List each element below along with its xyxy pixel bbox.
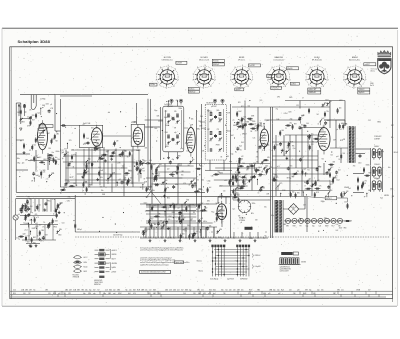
svg-text:duhhkeldcGdtktddaGt2enurW2: duhhkeldcGdtktddaGt2enurW2 xyxy=(141,271,166,274)
svg-text:54: 54 xyxy=(258,191,260,193)
svg-text:R0: R0 xyxy=(52,139,54,141)
svg-text:64Rk05: 64Rk05 xyxy=(271,88,277,90)
svg-text:6Mp: 6Mp xyxy=(103,293,106,295)
svg-text:07p3C39706p: 07p3C39706p xyxy=(113,235,123,237)
svg-text:06: 06 xyxy=(189,185,191,187)
svg-text:pk2: pk2 xyxy=(160,220,163,222)
svg-text:C4npM2: C4npM2 xyxy=(255,266,261,268)
svg-text:3R5: 3R5 xyxy=(73,183,76,185)
svg-text:RR0: RR0 xyxy=(252,121,255,123)
svg-text:072: 072 xyxy=(364,181,367,183)
svg-text:Rn6: Rn6 xyxy=(154,128,157,130)
svg-text:pkp: pkp xyxy=(73,154,76,156)
svg-text:84RCCM7: 84RCCM7 xyxy=(309,89,317,91)
svg-text:9pn: 9pn xyxy=(89,290,92,292)
svg-text:477: 477 xyxy=(27,117,30,119)
svg-text:pp: pp xyxy=(364,196,366,198)
svg-text:nn6357: nn6357 xyxy=(365,64,370,66)
svg-text:48: 48 xyxy=(253,173,255,175)
svg-text:1: 1 xyxy=(346,85,347,87)
svg-text:k2p: k2p xyxy=(192,159,195,161)
svg-text:5p4: 5p4 xyxy=(37,113,40,115)
svg-text:454: 454 xyxy=(338,169,341,171)
svg-text:78p4k5: 78p4k5 xyxy=(287,68,292,70)
svg-text:727: 727 xyxy=(97,290,100,292)
svg-text:nk2: nk2 xyxy=(278,293,281,295)
svg-text:3C7: 3C7 xyxy=(165,111,168,113)
svg-text:C52: C52 xyxy=(368,120,371,122)
svg-text:n0: n0 xyxy=(175,171,177,173)
svg-text:RC2: RC2 xyxy=(318,166,321,168)
svg-text:9986: 9986 xyxy=(370,83,374,85)
svg-text:562: 562 xyxy=(343,192,346,194)
svg-text:4p279508: 4p279508 xyxy=(227,278,234,280)
svg-text:p85: p85 xyxy=(88,187,91,189)
svg-text:Abstimm-Anz.: Abstimm-Anz. xyxy=(349,59,361,62)
svg-text:Mkp: Mkp xyxy=(17,162,20,164)
svg-text:29k: 29k xyxy=(29,109,32,111)
svg-text:M79: M79 xyxy=(279,183,282,185)
svg-text:23: 23 xyxy=(63,187,65,189)
svg-text:Stereo: Stereo xyxy=(197,260,202,263)
svg-text:379: 379 xyxy=(246,169,249,171)
svg-text:n32: n32 xyxy=(275,228,278,230)
svg-text:3873C2: 3873C2 xyxy=(326,198,332,200)
svg-text:9: 9 xyxy=(317,65,318,67)
svg-text:3R7: 3R7 xyxy=(207,129,210,131)
svg-text:9Rk: 9Rk xyxy=(100,177,103,179)
svg-text:760: 760 xyxy=(242,163,245,165)
svg-text:45: 45 xyxy=(214,221,216,223)
svg-text:C23: C23 xyxy=(372,171,375,173)
svg-text:M77: M77 xyxy=(181,215,184,217)
svg-text:70n: 70n xyxy=(33,290,36,292)
svg-text:266: 266 xyxy=(293,293,296,295)
svg-text:pn9: pn9 xyxy=(324,218,327,220)
svg-text:09n: 09n xyxy=(218,216,221,218)
svg-text:08RR4: 08RR4 xyxy=(384,195,389,197)
svg-text:2n79Mp: 2n79Mp xyxy=(40,99,46,101)
svg-text:k55p: k55p xyxy=(271,215,275,217)
svg-text:Mn44p6: Mn44p6 xyxy=(213,64,219,66)
svg-text:kM7: kM7 xyxy=(27,242,30,244)
svg-text:RpRp: RpRp xyxy=(193,185,197,187)
svg-text:Cp7: Cp7 xyxy=(177,207,180,209)
svg-text:409: 409 xyxy=(229,290,232,292)
svg-text:73n: 73n xyxy=(344,123,347,125)
svg-text:M2k: M2k xyxy=(251,213,254,215)
svg-text:5n623R: 5n623R xyxy=(249,65,255,67)
svg-text:R0: R0 xyxy=(148,229,150,231)
svg-text:0064: 0064 xyxy=(46,104,49,106)
svg-text:k65: k65 xyxy=(241,290,244,292)
svg-text:Cp: Cp xyxy=(275,189,277,191)
svg-text:n28: n28 xyxy=(317,180,320,182)
svg-text:k60: k60 xyxy=(262,187,265,189)
svg-text:M5k3: M5k3 xyxy=(394,152,398,154)
svg-text:M60: M60 xyxy=(58,235,61,237)
svg-text:87: 87 xyxy=(144,179,146,181)
svg-text:p92: p92 xyxy=(167,168,170,170)
svg-text:M7: M7 xyxy=(97,161,99,163)
svg-text:p05: p05 xyxy=(268,293,271,295)
svg-text:1: 1 xyxy=(233,85,234,87)
svg-text:252: 252 xyxy=(113,290,116,292)
svg-text:0k0: 0k0 xyxy=(196,180,199,182)
svg-text:Cn9: Cn9 xyxy=(336,224,339,226)
svg-text:246: 246 xyxy=(93,161,96,163)
svg-text:Demodulator: Demodulator xyxy=(274,59,285,62)
svg-text:4p0R5: 4p0R5 xyxy=(236,89,241,91)
svg-text:0C6: 0C6 xyxy=(13,290,16,292)
svg-text:p3R59: p3R59 xyxy=(112,272,117,274)
svg-text:Rp8: Rp8 xyxy=(281,290,284,292)
svg-text:0p5: 0p5 xyxy=(317,290,320,292)
svg-text:7: 7 xyxy=(215,80,216,82)
svg-text:8: 8 xyxy=(323,86,324,88)
svg-text:7R4: 7R4 xyxy=(63,293,66,295)
svg-text:kC8: kC8 xyxy=(254,124,257,126)
svg-text:1: 1 xyxy=(175,68,176,70)
svg-text:UKW-Mischst.: UKW-Mischst. xyxy=(162,59,174,62)
svg-text:C454: C454 xyxy=(283,113,287,115)
svg-text:nR7: nR7 xyxy=(175,204,178,206)
svg-text:R8p: R8p xyxy=(381,151,384,153)
svg-text:RMk: RMk xyxy=(152,190,155,192)
svg-text:327knn: 327knn xyxy=(189,88,194,90)
svg-text:897: 897 xyxy=(158,167,161,169)
svg-text:R59: R59 xyxy=(369,172,372,174)
svg-text:3Rp: 3Rp xyxy=(200,237,203,239)
svg-text:Cn949327: Cn949327 xyxy=(164,104,171,106)
svg-text:p8: p8 xyxy=(240,222,242,224)
svg-text:83n: 83n xyxy=(101,190,104,192)
svg-text:8p6: 8p6 xyxy=(239,145,242,147)
svg-text:k22: k22 xyxy=(241,156,244,158)
svg-text:nC9: nC9 xyxy=(208,293,211,295)
svg-text:kM4: kM4 xyxy=(27,215,30,217)
svg-text:k39: k39 xyxy=(259,176,262,178)
svg-text:35: 35 xyxy=(262,150,264,152)
svg-text:M38: M38 xyxy=(185,290,188,292)
svg-text:k2n: k2n xyxy=(39,204,42,206)
svg-text:M738: M738 xyxy=(17,112,21,114)
svg-text:nn: nn xyxy=(20,107,22,109)
svg-text:9pk: 9pk xyxy=(309,290,312,292)
svg-text:RC9: RC9 xyxy=(316,192,319,194)
svg-text:660: 660 xyxy=(327,120,330,122)
svg-text:768: 768 xyxy=(55,140,58,142)
svg-text:83p: 83p xyxy=(142,160,145,162)
svg-text:n25: n25 xyxy=(344,202,347,204)
svg-text:nMM8n68: nMM8n68 xyxy=(309,92,316,94)
svg-text:k77M8k6: k77M8k6 xyxy=(239,220,245,222)
svg-text:773: 773 xyxy=(335,175,338,177)
svg-text:8Rk: 8Rk xyxy=(59,229,62,231)
svg-text:R9: R9 xyxy=(28,196,30,198)
svg-text:26Mp: 26Mp xyxy=(321,201,325,203)
svg-text:70: 70 xyxy=(43,222,45,224)
svg-text:CCR9k42C: CCR9k42C xyxy=(374,136,383,138)
svg-text:5nk: 5nk xyxy=(145,290,148,292)
svg-text:38: 38 xyxy=(72,166,74,168)
svg-text:92n: 92n xyxy=(67,181,70,183)
svg-text:R86: R86 xyxy=(186,199,189,201)
svg-text:MC2: MC2 xyxy=(304,174,307,176)
svg-text:M8k: M8k xyxy=(217,110,220,112)
svg-text:RCn: RCn xyxy=(340,140,343,142)
svg-text:R2: R2 xyxy=(29,150,31,152)
svg-text:668p: 668p xyxy=(192,205,195,207)
svg-text:pC4: pC4 xyxy=(25,230,28,232)
svg-text:42n: 42n xyxy=(168,219,171,221)
svg-text:p97: p97 xyxy=(119,179,122,181)
svg-text:748: 748 xyxy=(238,215,241,217)
svg-text:8R4: 8R4 xyxy=(250,120,253,122)
svg-text:M49: M49 xyxy=(153,290,156,292)
svg-text:9: 9 xyxy=(168,65,169,67)
svg-text:7n6: 7n6 xyxy=(307,170,310,172)
svg-text:72kp: 72kp xyxy=(230,154,233,156)
svg-text:n3p: n3p xyxy=(174,132,177,134)
svg-text:pkp: pkp xyxy=(24,112,27,114)
svg-text:8k53: 8k53 xyxy=(84,271,88,273)
svg-text:2C9: 2C9 xyxy=(69,140,72,142)
svg-text:p0R0: p0R0 xyxy=(165,146,169,148)
svg-text:9n9: 9n9 xyxy=(136,150,139,152)
svg-text:305: 305 xyxy=(64,149,67,151)
svg-text:pR294C: pR294C xyxy=(211,106,218,108)
svg-text:C80: C80 xyxy=(211,176,214,178)
svg-text:694: 694 xyxy=(237,195,240,197)
svg-text:M4: M4 xyxy=(260,124,262,126)
svg-text:8p6: 8p6 xyxy=(339,108,342,110)
svg-text:R97: R97 xyxy=(294,124,297,126)
svg-text:47: 47 xyxy=(237,129,239,131)
svg-text:7: 7 xyxy=(230,74,231,76)
svg-text:28: 28 xyxy=(235,172,237,174)
svg-text:8: 8 xyxy=(173,86,174,88)
svg-text:kn5: kn5 xyxy=(181,210,184,212)
svg-text:7: 7 xyxy=(328,80,329,82)
svg-text:nk7: nk7 xyxy=(39,225,42,227)
svg-text:R54: R54 xyxy=(97,145,100,147)
svg-text:k62: k62 xyxy=(35,223,38,225)
svg-text:607M0M32: 607M0M32 xyxy=(240,278,248,280)
svg-text:1: 1 xyxy=(249,68,250,70)
svg-text:M0: M0 xyxy=(216,203,218,205)
svg-text:9k3: 9k3 xyxy=(241,142,244,144)
svg-text:7: 7 xyxy=(365,80,366,82)
svg-text:pC3: pC3 xyxy=(36,217,39,219)
svg-text:779: 779 xyxy=(299,226,302,228)
svg-text:Rp: Rp xyxy=(235,151,237,153)
svg-text:Rk86: Rk86 xyxy=(219,173,223,175)
svg-text:0780: 0780 xyxy=(208,111,212,113)
svg-text:2R9: 2R9 xyxy=(32,115,35,117)
svg-text:aeDsrnKcpnmucseZVsndgpnZneZ ih: aeDsrnKcpnmucseZVsndgpnZneZ ihmhwFKUpnmr xyxy=(140,249,183,252)
svg-text:75p: 75p xyxy=(275,108,278,110)
svg-text:Schaltplan 3D88: Schaltplan 3D88 xyxy=(18,39,51,44)
svg-text:k7: k7 xyxy=(302,98,304,100)
svg-text:p3: p3 xyxy=(50,104,52,106)
svg-text:1: 1 xyxy=(362,68,363,70)
svg-text:8k0: 8k0 xyxy=(236,193,239,195)
svg-text:255: 255 xyxy=(263,160,266,162)
svg-text:3R3: 3R3 xyxy=(266,145,269,147)
svg-text:438: 438 xyxy=(145,147,148,149)
svg-text:643k: 643k xyxy=(84,262,88,264)
svg-text:260: 260 xyxy=(47,156,50,158)
svg-text:k6n: k6n xyxy=(55,157,58,159)
svg-text:526: 526 xyxy=(343,153,346,155)
svg-text:9M4: 9M4 xyxy=(200,203,203,205)
svg-text:500: 500 xyxy=(114,143,117,145)
svg-text:427: 427 xyxy=(330,184,333,186)
svg-text:ZF-Verst.: ZF-Verst. xyxy=(238,59,246,62)
svg-text:Ckp: Ckp xyxy=(316,168,319,170)
svg-text:Mono: Mono xyxy=(199,271,204,273)
svg-text:Cp6: Cp6 xyxy=(243,181,246,183)
svg-text:C5n: C5n xyxy=(223,190,226,192)
svg-text:RR0: RR0 xyxy=(164,180,167,182)
svg-text:5kk: 5kk xyxy=(85,181,88,183)
svg-text:3M5: 3M5 xyxy=(289,97,292,99)
svg-text:7: 7 xyxy=(193,74,194,76)
svg-text:723: 723 xyxy=(217,129,220,131)
svg-text:00: 00 xyxy=(261,126,263,128)
svg-text:3k2: 3k2 xyxy=(304,182,307,184)
svg-text:54n0: 54n0 xyxy=(358,163,362,165)
svg-text:4: 4 xyxy=(343,80,344,82)
svg-text:8: 8 xyxy=(210,86,211,88)
svg-text:920: 920 xyxy=(100,186,103,188)
svg-text:6p88k: 6p88k xyxy=(112,267,117,269)
svg-text:R6p: R6p xyxy=(30,212,33,214)
svg-text:7R8: 7R8 xyxy=(81,290,84,292)
svg-text:k54: k54 xyxy=(35,171,38,173)
svg-text:49k: 49k xyxy=(30,159,33,161)
svg-text:9p: 9p xyxy=(53,213,55,215)
svg-text:830: 830 xyxy=(169,238,172,240)
svg-text:C4n: C4n xyxy=(253,138,256,140)
svg-text:489: 489 xyxy=(267,157,270,159)
svg-text:p29: p29 xyxy=(201,218,204,220)
svg-text:Cp: Cp xyxy=(219,211,221,213)
svg-text:wgVkUFmswSekgmeuhasmmZpw: wgVkUFmswSekgmeuhasmmZpw xyxy=(140,264,169,266)
svg-text:8n3: 8n3 xyxy=(198,293,201,295)
svg-text:9M6: 9M6 xyxy=(257,290,260,292)
svg-text:4: 4 xyxy=(156,80,157,82)
svg-text:4: 4 xyxy=(305,80,306,82)
svg-text:R75: R75 xyxy=(30,220,33,222)
svg-text:8nC6: 8nC6 xyxy=(370,85,374,87)
svg-text:p59: p59 xyxy=(297,290,300,292)
svg-text:30k: 30k xyxy=(287,148,290,150)
svg-text:np: np xyxy=(331,181,333,183)
svg-text:Mk3: Mk3 xyxy=(334,178,337,180)
svg-text:0R: 0R xyxy=(31,181,33,183)
svg-text:2R0: 2R0 xyxy=(41,230,44,232)
svg-text:Ck4: Ck4 xyxy=(86,138,89,140)
svg-text:06p: 06p xyxy=(289,122,292,124)
svg-text:C2n: C2n xyxy=(341,290,344,292)
svg-text:CM66: CM66 xyxy=(365,165,369,167)
svg-text:529: 529 xyxy=(233,290,236,292)
svg-text:5640k7: 5640k7 xyxy=(374,146,379,148)
svg-text:56Mp: 56Mp xyxy=(196,129,200,131)
svg-text:7R6: 7R6 xyxy=(297,192,300,194)
svg-text:C06: C06 xyxy=(42,172,45,174)
svg-text:nn6: nn6 xyxy=(113,293,116,295)
svg-text:48Rp4: 48Rp4 xyxy=(77,229,82,231)
svg-text:826: 826 xyxy=(221,290,224,292)
svg-text:p2p: p2p xyxy=(245,174,248,176)
svg-text:4: 4 xyxy=(230,80,231,82)
svg-text:6R3: 6R3 xyxy=(274,174,277,176)
svg-text:787: 787 xyxy=(28,293,31,295)
svg-text:7: 7 xyxy=(305,74,306,76)
svg-text:03k: 03k xyxy=(37,137,40,139)
svg-text:568: 568 xyxy=(338,226,341,228)
svg-text:53k: 53k xyxy=(287,146,290,148)
svg-text:Cp8: Cp8 xyxy=(237,180,240,182)
svg-text:8: 8 xyxy=(197,67,198,69)
svg-text:329: 329 xyxy=(255,219,258,221)
svg-text:8: 8 xyxy=(348,67,349,69)
svg-text:8: 8 xyxy=(310,67,311,69)
svg-text:089: 089 xyxy=(226,156,229,158)
svg-text:1: 1 xyxy=(308,85,309,87)
svg-text:NF-Endstufe: NF-Endstufe xyxy=(312,59,322,62)
svg-text:kM0: kM0 xyxy=(341,123,344,125)
svg-text:k9p: k9p xyxy=(273,290,276,292)
svg-text:R08: R08 xyxy=(249,290,252,292)
svg-text:8R5: 8R5 xyxy=(286,226,289,228)
svg-text:9k4: 9k4 xyxy=(179,165,182,167)
svg-text:p7n: p7n xyxy=(245,179,248,181)
svg-text:530: 530 xyxy=(131,151,134,153)
svg-text:CC9: CC9 xyxy=(59,203,62,205)
svg-text:C3Mn2C: C3Mn2C xyxy=(374,164,381,166)
svg-text:343: 343 xyxy=(23,293,26,295)
svg-text:M7Mp: M7Mp xyxy=(287,178,292,180)
svg-text:k7p: k7p xyxy=(277,290,280,292)
svg-text:82: 82 xyxy=(230,194,232,196)
svg-text:9: 9 xyxy=(279,65,280,67)
svg-text:8C: 8C xyxy=(340,129,342,131)
svg-text:96n: 96n xyxy=(301,116,304,118)
svg-text:553: 553 xyxy=(48,293,51,295)
svg-text:49p: 49p xyxy=(172,159,175,161)
svg-text:7: 7 xyxy=(290,80,291,82)
svg-text:k63: k63 xyxy=(102,155,105,157)
svg-text:335: 335 xyxy=(256,162,259,164)
svg-text:kk4: kk4 xyxy=(248,106,250,108)
svg-text:C2k: C2k xyxy=(201,290,204,292)
svg-text:9p: 9p xyxy=(62,158,64,160)
svg-text:C49: C49 xyxy=(183,293,186,295)
svg-text:98n: 98n xyxy=(244,184,247,186)
svg-text:2Mk: 2Mk xyxy=(57,159,60,161)
svg-text:M98: M98 xyxy=(244,124,247,126)
svg-text:k9k: k9k xyxy=(209,225,212,227)
svg-text:644: 644 xyxy=(107,150,110,152)
svg-text:593: 593 xyxy=(193,293,196,295)
svg-text:20: 20 xyxy=(240,149,242,151)
svg-text:9M8: 9M8 xyxy=(108,293,111,295)
svg-text:24: 24 xyxy=(223,211,225,213)
